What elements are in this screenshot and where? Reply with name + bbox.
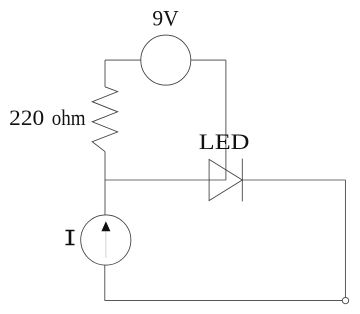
wire (node A to LED anode) bbox=[105, 179, 226, 181]
wire (bottom run from terminal to current source corner) bbox=[105, 300, 342, 302]
label I bbox=[66, 230, 75, 245]
resistor R1 (220 ohm) zigzag bbox=[92, 87, 118, 152]
svg-text:ohm: ohm bbox=[52, 105, 86, 130]
wire (left terminal of 9V to top-left corner) bbox=[105, 59, 141, 61]
current source I1 circle bbox=[81, 215, 131, 265]
open terminal node bbox=[342, 297, 348, 303]
LED D1 triangle (anode) bbox=[209, 159, 242, 200]
wire (right side down to terminal) bbox=[344, 180, 346, 297]
LED D1 cathode bar bbox=[241, 159, 243, 202]
wire (bottom-left corner up to current source bottom) bbox=[104, 265, 106, 301]
current source arrowhead bbox=[101, 221, 110, 231]
svg-text:220: 220 bbox=[9, 105, 44, 130]
wire (resistor bottom down through node to current source top) bbox=[104, 152, 106, 215]
wire (right terminal of 9V to top-right corner) bbox=[191, 59, 226, 61]
svg-text:9V: 9V bbox=[152, 5, 178, 30]
current source arrow shaft bbox=[105, 231, 107, 258]
wire (top-left corner down to resistor top) bbox=[104, 60, 106, 87]
svg-text:LED: LED bbox=[199, 129, 250, 154]
voltage source U1 (9V) circle bbox=[141, 35, 191, 85]
wire (LED cathode to right side) bbox=[242, 179, 345, 181]
wire (top-right corner down to LED center node) bbox=[225, 60, 227, 180]
